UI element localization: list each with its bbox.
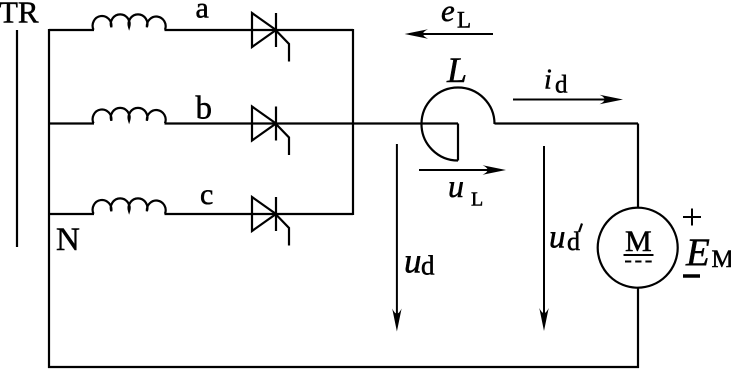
thyristor VT1 [252,13,289,62]
svg-text:d: d [555,72,568,99]
svg-text:u: u [448,168,464,204]
wire phase a left segment [49,29,94,31]
svg-text:u: u [549,220,566,256]
transformer TR bar [16,30,18,247]
svg-text:N: N [56,222,80,258]
thyristor VT2 [252,107,289,156]
inductor winding phase b [93,108,166,123]
arrow e_L [405,29,493,38]
svg-text:M: M [712,246,731,273]
motor M circle [598,208,678,288]
inductor winding phase a [93,14,166,29]
svg-text:L: L [446,50,467,90]
wire phase b right segment [165,122,459,124]
svg-text:L: L [457,7,471,32]
svg-text:M: M [625,225,652,258]
svg-text:e: e [441,0,455,28]
label minus terminal [683,274,700,278]
arrow u_L [419,165,506,174]
svg-text:L: L [471,189,483,211]
svg-text:E: E [685,231,710,274]
svg-text:i: i [544,65,552,96]
wire phase b left segment [49,122,94,124]
inductor winding phase c [93,198,166,213]
wire left bus [48,29,50,368]
wire bottom return [48,366,639,368]
arrow u_d' [539,146,548,331]
svg-text:c: c [200,178,213,211]
svg-text:b: b [196,91,213,127]
wire phase c left segment [49,213,94,215]
label plus terminal [683,209,701,226]
arrow i_d [513,95,623,104]
arrow u_d [392,144,401,332]
wire phase a right segment [165,29,354,31]
wire motor bottom lead [637,288,639,368]
motor M underline solid [624,254,654,256]
motor M underline dashed [625,261,652,263]
svg-text:d: d [421,251,435,281]
svg-text:d: d [567,227,580,256]
thyristor VT3 [252,197,289,246]
label u_d' prime [579,224,582,233]
svg-text:u: u [404,242,422,281]
wire motor top lead [637,124,639,209]
svg-text:TR: TR [0,0,39,30]
wire cathode bus [352,29,354,215]
svg-text:a: a [196,0,209,25]
wire phase c right segment [165,213,354,215]
wire from L to motor [495,122,639,124]
inductor L loop [422,88,495,161]
